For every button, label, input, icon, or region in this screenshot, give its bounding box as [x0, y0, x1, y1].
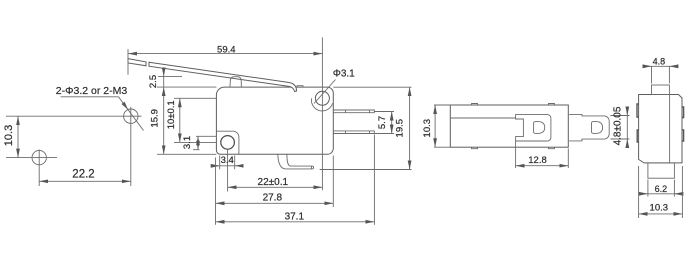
- svg-text:4.8±0.05: 4.8±0.05: [612, 106, 623, 145]
- svg-text:10.3: 10.3: [3, 125, 15, 146]
- svg-text:10±0.1: 10±0.1: [166, 100, 177, 129]
- svg-text:6.2: 6.2: [655, 184, 668, 194]
- svg-text:2.5: 2.5: [148, 75, 159, 88]
- svg-text:19.5: 19.5: [395, 119, 406, 138]
- svg-text:22.2: 22.2: [72, 168, 94, 180]
- svg-text:12.8: 12.8: [528, 155, 547, 166]
- svg-text:27.8: 27.8: [263, 193, 283, 204]
- svg-text:10.3: 10.3: [650, 202, 669, 213]
- svg-text:37.1: 37.1: [285, 211, 305, 222]
- svg-text:Φ3.1: Φ3.1: [333, 69, 355, 80]
- svg-text:5.7: 5.7: [377, 116, 388, 129]
- svg-text:22±0.1: 22±0.1: [258, 177, 289, 188]
- svg-text:2-Φ3.2 or 2-M3: 2-Φ3.2 or 2-M3: [56, 85, 128, 97]
- svg-text:3.4: 3.4: [221, 155, 234, 166]
- svg-text:59.4: 59.4: [217, 45, 236, 56]
- svg-text:3.1: 3.1: [182, 136, 193, 149]
- svg-text:4.8: 4.8: [653, 57, 666, 67]
- svg-text:15.9: 15.9: [149, 109, 160, 128]
- svg-text:10.3: 10.3: [422, 119, 433, 138]
